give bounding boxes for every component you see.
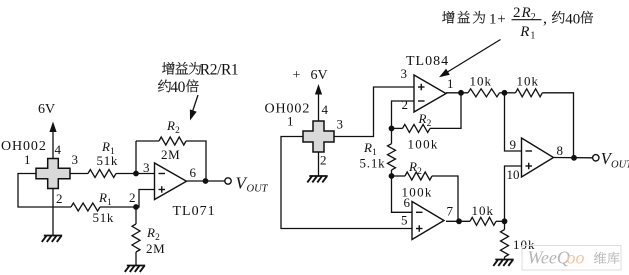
svg-text:40: 40 xyxy=(565,12,580,28)
svg-text:2: 2 xyxy=(531,12,536,23)
svg-text:TL071: TL071 xyxy=(173,204,216,219)
svg-text:4: 4 xyxy=(322,102,329,117)
watermark box xyxy=(522,246,621,271)
wire sensor pin1 loop to op2 +in xyxy=(281,137,412,229)
svg-text:8: 8 xyxy=(557,143,564,158)
hall sensor OH002 (right) xyxy=(303,121,334,152)
wire upper node to op3 -in xyxy=(505,93,522,151)
wire R2 to ground xyxy=(135,252,137,266)
svg-text:+: + xyxy=(497,12,505,28)
svg-text:2: 2 xyxy=(320,153,327,168)
wire feedback up xyxy=(135,141,137,174)
annotation gain text (left) line2 xyxy=(158,80,171,93)
svg-text:10: 10 xyxy=(507,167,520,182)
svg-text:1: 1 xyxy=(24,152,31,167)
svg-text:10k: 10k xyxy=(517,74,540,89)
wire sensor pin2 to ground xyxy=(52,188,54,236)
resistor R1 5.1k (gain) xyxy=(391,128,393,143)
svg-text:100k: 100k xyxy=(408,137,439,152)
plus sign U1 xyxy=(159,189,166,191)
svg-text:R: R xyxy=(101,139,110,154)
resistor 10k (ground leg) xyxy=(501,230,509,257)
svg-text:OUT: OUT xyxy=(247,184,269,195)
resistor R2 2M (feedback) xyxy=(159,137,186,145)
op-amp U2A TL084 (top) xyxy=(414,75,446,112)
svg-text:WeeQ: WeeQ xyxy=(528,248,570,268)
svg-text:TL084: TL084 xyxy=(406,54,449,69)
wire to R2 feedback (top) xyxy=(392,127,403,129)
wire sensor pin2 to ground (right) xyxy=(318,152,320,176)
svg-text:2: 2 xyxy=(417,167,422,177)
svg-text:+: + xyxy=(293,68,301,83)
resistor 10k (upper feedback) xyxy=(516,89,543,97)
plus sign U2A xyxy=(418,86,425,88)
op-amp U1 TL071 xyxy=(155,163,187,200)
node: non-inverting junction xyxy=(133,204,139,210)
wire node down to 10k xyxy=(504,221,506,229)
resistor R1 51k (top) xyxy=(88,170,116,178)
svg-text:,: , xyxy=(543,10,547,27)
wire between upper 10ks xyxy=(500,92,516,94)
svg-text:1: 1 xyxy=(530,31,535,42)
wire 10k feedback to op3 output xyxy=(542,93,573,158)
svg-text:R: R xyxy=(521,5,531,21)
wire op1 -in jog xyxy=(392,101,415,128)
svg-text:10k: 10k xyxy=(470,74,493,89)
svg-text:2: 2 xyxy=(427,119,432,129)
svg-text:3: 3 xyxy=(401,66,408,81)
minus sign U1 xyxy=(159,173,166,175)
wire feedback top rail xyxy=(136,140,159,142)
wire op2 -in jog xyxy=(392,176,413,212)
svg-text:1: 1 xyxy=(447,76,454,91)
svg-text:4: 4 xyxy=(55,142,62,157)
node: upper junction xyxy=(502,90,508,96)
svg-text:2M: 2M xyxy=(161,147,180,162)
resistor 10k (upper arm 1) xyxy=(468,89,500,97)
ground (right divider) xyxy=(493,260,513,266)
svg-text:6: 6 xyxy=(404,195,411,210)
svg-text:3: 3 xyxy=(337,117,344,132)
hall sensor OH002 (left) xyxy=(36,159,70,189)
wire R2 bottom to op2 output xyxy=(432,176,458,221)
svg-text:R: R xyxy=(418,111,427,126)
wire op1 output xyxy=(446,92,468,94)
wire R1 to inverting input xyxy=(116,173,155,175)
terminal VOUT (left) xyxy=(225,178,231,184)
svg-text:R: R xyxy=(146,225,155,240)
annotation gain text (left) line1 xyxy=(162,62,174,75)
svg-text:10k: 10k xyxy=(472,203,495,218)
svg-text:1: 1 xyxy=(489,12,497,28)
wire R1 to non-inverting node xyxy=(100,206,136,208)
node: op1 output junction xyxy=(458,90,464,96)
wire sensor pin3 to R1 xyxy=(70,173,88,175)
resistor R2 2M (shunt) xyxy=(132,224,140,252)
wire node up to op3 +in xyxy=(505,166,522,221)
svg-text:51k: 51k xyxy=(93,210,115,225)
wire op2 output xyxy=(446,220,470,222)
node: output junction U1 xyxy=(203,178,209,184)
op-amp U2C TL084 (right) xyxy=(522,138,554,177)
resistor R1 51k (bottom) xyxy=(71,203,100,211)
minus sign U2B xyxy=(416,211,423,213)
resistor 10k (lower arm) xyxy=(470,217,496,225)
node: op3 +in junction xyxy=(502,218,508,224)
power arrow 6V (left) xyxy=(52,131,54,158)
svg-text:2: 2 xyxy=(513,5,521,21)
svg-text:6V: 6V xyxy=(311,68,328,83)
plus sign U2B xyxy=(416,228,423,230)
resistor R2 100k (top feedback) xyxy=(403,124,431,132)
wire R2 top to op1 output xyxy=(430,93,461,129)
svg-text:7: 7 xyxy=(447,204,454,219)
wire feedback to output xyxy=(186,141,206,181)
wire jog to + input xyxy=(136,190,155,208)
node: op1 feedback junction xyxy=(389,125,395,131)
wire op3 output xyxy=(554,157,593,159)
svg-text:2: 2 xyxy=(175,126,180,136)
node: op3 output junction xyxy=(571,155,577,161)
wire to R2 shunt xyxy=(135,207,137,224)
annotation gain text (right) xyxy=(442,11,454,24)
svg-text:oo: oo xyxy=(567,248,585,268)
wire sensor pin3 to op1 +in xyxy=(334,87,414,137)
power arrow 6V (right) xyxy=(318,94,320,121)
svg-text:R: R xyxy=(166,118,175,133)
svg-text:9: 9 xyxy=(510,137,517,152)
wire to R2 feedback (bottom) xyxy=(392,175,406,177)
svg-text:R: R xyxy=(363,140,372,155)
node: inverting input junction xyxy=(133,171,139,177)
svg-text:2: 2 xyxy=(402,97,409,112)
svg-text:2: 2 xyxy=(129,190,136,205)
svg-text:R: R xyxy=(98,190,107,205)
svg-text:R: R xyxy=(519,24,529,40)
svg-text:3: 3 xyxy=(72,152,79,167)
svg-text:2: 2 xyxy=(56,191,63,206)
terminal VOUT (right) xyxy=(593,155,599,161)
svg-text:OUT: OUT xyxy=(611,160,629,171)
annotation arrow (left) xyxy=(192,95,198,114)
svg-text:6V: 6V xyxy=(38,102,55,117)
svg-text:5.1k: 5.1k xyxy=(360,156,386,171)
ground (left sensor) xyxy=(42,236,62,242)
node: op2 feedback junction xyxy=(389,173,395,179)
wire sensor pin1 loop xyxy=(18,174,71,208)
svg-text:51k: 51k xyxy=(97,153,119,168)
annotation arrow (right) xyxy=(445,40,501,74)
svg-text:6: 6 xyxy=(190,165,197,180)
svg-text:3: 3 xyxy=(143,160,150,175)
svg-text:1: 1 xyxy=(287,114,294,129)
node: op2 output junction xyxy=(456,218,462,224)
svg-text:2M: 2M xyxy=(146,241,165,256)
ground (right sensor) xyxy=(307,176,327,182)
op-amp U2B TL084 (bottom) xyxy=(412,202,444,240)
minus sign U2C xyxy=(526,150,533,152)
plus sign U2C xyxy=(526,165,533,167)
wire output U1 xyxy=(187,180,225,182)
svg-text:R2/R1: R2/R1 xyxy=(200,62,238,79)
svg-text:40: 40 xyxy=(170,79,185,96)
resistor R2 100k (bottom feedback) xyxy=(405,172,432,180)
wire 10k to ground (right) xyxy=(504,257,506,260)
svg-text:5: 5 xyxy=(401,213,408,228)
ground (R2 shunt) xyxy=(125,266,145,272)
svg-text:R: R xyxy=(408,159,417,174)
wire 10k to node xyxy=(496,220,505,222)
minus sign U2A xyxy=(418,100,425,102)
